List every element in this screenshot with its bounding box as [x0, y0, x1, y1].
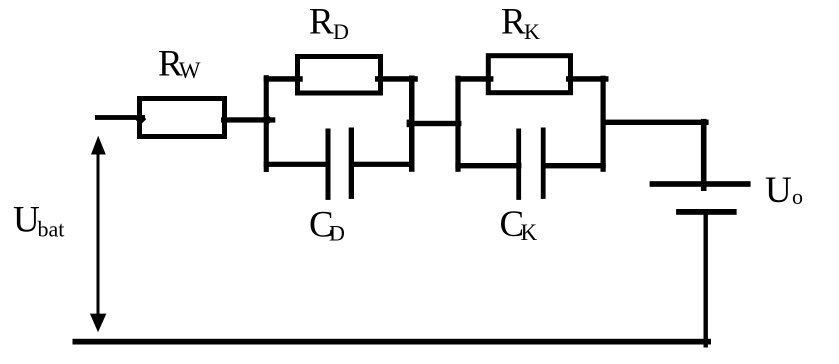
wire bottom-left to C_D — [264, 162, 330, 167]
capacitor C_D left plate — [326, 129, 331, 200]
arrow U_bat bottom head — [90, 314, 107, 333]
capacitor C_D right plate — [349, 128, 354, 199]
svg-text:o: o — [792, 184, 803, 209]
svg-text:D: D — [329, 220, 345, 245]
wire R_D to top-right rail — [375, 76, 418, 82]
node junction diamond at left rail of RC group 1 — [261, 114, 273, 126]
wire R_W to first parallel group — [221, 117, 275, 122]
wire left stub into R_W — [95, 115, 145, 120]
wire bottom return — [73, 339, 712, 345]
svg-text:D: D — [333, 19, 349, 44]
wire left rail of RC group 2 — [455, 76, 460, 172]
node junction diamond at R_W left pin — [135, 113, 146, 124]
svg-text:bat: bat — [38, 216, 65, 241]
resistor R_W — [140, 99, 225, 137]
resistor R_K — [488, 56, 570, 93]
wire battery top lead — [701, 119, 707, 191]
svg-text:R: R — [501, 2, 526, 43]
arrow U_bat top head — [91, 136, 106, 155]
wire R_K to top-right rail — [566, 76, 609, 82]
wire top-left to R_D — [264, 76, 303, 82]
svg-text:K: K — [524, 19, 540, 44]
node junction tick at right rail of group 1 — [407, 120, 410, 128]
battery U_o long plate — [650, 181, 751, 187]
resistor R_D — [298, 57, 381, 94]
battery U_o short plate — [676, 209, 737, 215]
wire from group 2 to battery branch — [601, 120, 709, 125]
capacitor C_K left plate — [516, 129, 521, 200]
wire left rail of RC group 1 — [264, 75, 269, 172]
svg-text:U: U — [13, 199, 40, 240]
svg-text:W: W — [179, 58, 201, 83]
wire right rail of RC group 2 — [601, 76, 606, 172]
wire right rail of RC group 1 — [409, 76, 415, 172]
wire C_K to bottom-right rail — [543, 163, 606, 168]
svg-text:R: R — [309, 2, 334, 43]
svg-text:K: K — [521, 220, 538, 245]
wire top-left to R_K — [455, 76, 493, 82]
wire C_D to bottom-right rail — [351, 162, 414, 167]
svg-text:U: U — [765, 170, 792, 211]
capacitor C_K right plate — [541, 128, 546, 199]
wire bottom-left to C_K — [455, 163, 521, 168]
arrow U_bat measurement line — [97, 150, 100, 318]
wire battery bottom lead — [704, 209, 708, 348]
wire between the two RC groups — [407, 121, 461, 126]
